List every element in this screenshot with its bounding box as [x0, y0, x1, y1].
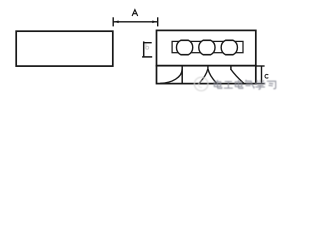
- dimension b bottom tick: [142, 56, 152, 58]
- terminal body (upper box): [157, 30, 256, 65]
- char 电 (2): [235, 80, 243, 88]
- label b (faint): [146, 44, 149, 49]
- dimension c line: [261, 66, 263, 84]
- label c: [265, 74, 268, 78]
- dimension b line: [143, 41, 145, 56]
- screw hole 1: [176, 40, 192, 54]
- char 电 (1): [214, 80, 222, 88]
- quarter-pipe arc in base: [160, 69, 182, 84]
- dimension A arrowhead right: [152, 21, 157, 24]
- watermark text 电工电气学习 (hand drawn): [214, 80, 275, 89]
- dimension c top tick: [256, 65, 265, 67]
- base (lower box): [157, 66, 256, 84]
- half funnel flare: [231, 69, 244, 83]
- char 学: [256, 80, 266, 89]
- char 习: [267, 81, 276, 88]
- screw hole 2: [199, 40, 215, 54]
- char 工: [224, 82, 233, 89]
- dimension c bottom tick: [256, 83, 265, 85]
- slot (terminal bar opening): [172, 41, 243, 52]
- char 气: [246, 80, 255, 88]
- funnel cusp (right flank): [208, 69, 216, 83]
- watermark logo circle: [194, 77, 208, 91]
- half funnel wall: [230, 66, 232, 70]
- dimension A extension line right: [157, 17, 159, 26]
- divider wall in base: [181, 66, 183, 84]
- funnel cusp (left flank): [199, 69, 207, 83]
- funnel cusp stem: [207, 66, 209, 70]
- label A: [132, 10, 138, 16]
- screw hole 3: [221, 40, 237, 54]
- dimension b top tick: [144, 42, 152, 44]
- dimension A extension line left: [112, 17, 114, 26]
- dimension A arrowhead left: [114, 21, 119, 24]
- dimension A line: [113, 21, 158, 23]
- left block (cable / busbar rectangle): [16, 31, 113, 66]
